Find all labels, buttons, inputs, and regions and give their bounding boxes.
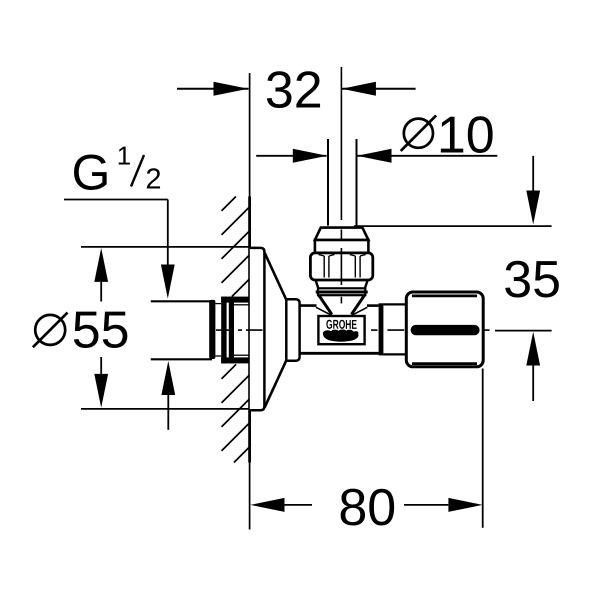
outlet ring xyxy=(318,288,365,295)
GROHE lion blob xyxy=(323,330,359,342)
svg-text:32: 32 xyxy=(265,61,323,119)
horizontal centerline of valve xyxy=(216,329,490,331)
dimension 35 xyxy=(354,156,552,401)
wall hatching xyxy=(222,197,250,463)
centerline dashes over valve parts xyxy=(246,230,341,331)
rosette collar xyxy=(286,299,299,361)
handle inner top line xyxy=(412,294,477,297)
outlet cap band xyxy=(315,240,369,253)
hex face lines xyxy=(319,254,366,277)
outlet cap trapezoid xyxy=(315,228,369,240)
dimension 80 xyxy=(285,369,483,528)
svg-text:G: G xyxy=(72,145,111,201)
rosette flange xyxy=(250,248,265,410)
thread inner lines xyxy=(215,304,249,356)
compression nut hex xyxy=(310,253,372,280)
thread bar 3 xyxy=(229,297,234,364)
svg-text:80: 80 xyxy=(338,479,396,537)
O10 diameter symbol xyxy=(404,119,433,148)
wall line xyxy=(249,73,251,530)
svg-text:55: 55 xyxy=(72,302,130,360)
funnel thin slant right xyxy=(351,307,367,315)
rosette cone top slant xyxy=(265,253,287,300)
valve body bottom edge xyxy=(299,352,380,355)
handle outline xyxy=(406,292,483,367)
bonnet between body and handle xyxy=(383,304,406,354)
funnel slant right xyxy=(352,296,365,315)
rosette cone bottom slant xyxy=(265,360,287,407)
thread relief bar xyxy=(209,300,215,359)
thread crest top band xyxy=(221,297,249,303)
inlet pipe G1/2 thread body xyxy=(151,301,212,359)
funnel thin slant left xyxy=(316,307,332,315)
handle inner bottom line xyxy=(412,362,477,365)
nut lower transition xyxy=(316,280,368,288)
outlet ring lip xyxy=(316,291,368,294)
valve body top edge xyxy=(299,304,379,307)
thread bar 2 xyxy=(221,297,226,364)
G1/2 leader xyxy=(64,200,168,430)
handle grip bar xyxy=(411,325,480,335)
dimension 32 xyxy=(177,88,416,90)
svg-text:1: 1 xyxy=(117,140,132,170)
outlet pipe xyxy=(328,139,357,226)
svg-text:10: 10 xyxy=(437,106,495,164)
O55 diameter symbol xyxy=(35,315,65,345)
valve body right end face xyxy=(379,303,384,355)
svg-text:35: 35 xyxy=(503,251,561,309)
vertical centerline of outlet pipe xyxy=(340,67,342,220)
GROHE label box xyxy=(318,316,364,344)
funnel slant left xyxy=(319,296,332,315)
dimension O55 xyxy=(81,247,250,409)
svg-text:2: 2 xyxy=(145,163,161,195)
thread crest bottom band xyxy=(221,357,249,363)
dimension O10 xyxy=(256,155,497,157)
